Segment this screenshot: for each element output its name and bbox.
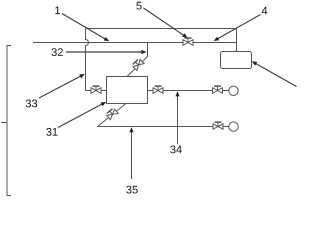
label 33 [26, 100, 37, 108]
label 4 [262, 7, 268, 15]
leader 4 arrow [216, 15, 260, 40]
circle pump bottom [229, 122, 238, 131]
wire right drop to box 4 [236, 29, 238, 52]
valve on top diagonal [132, 58, 144, 70]
valve on bottom pipe before pump [213, 122, 223, 129]
wire right pipe valve to pump [223, 90, 229, 92]
wire bottom diagonal from box 31 [98, 104, 127, 127]
wire bottom pipe valve to pump [223, 126, 229, 128]
bracket left [1, 46, 11, 196]
arrow 35 head [129, 127, 133, 132]
circle pump top [229, 86, 238, 95]
valve left of box 31 [91, 86, 101, 93]
label 1 [55, 7, 60, 15]
wire 35 vertical [131, 130, 133, 180]
label 31 [46, 128, 57, 136]
box component 31 (central) [107, 77, 148, 104]
valve on bottom diagonal [106, 108, 118, 120]
wire 34 vertical [177, 93, 179, 144]
label 34 [170, 146, 182, 154]
label 32 [52, 48, 63, 56]
wire left vertical with crossover hop [86, 29, 92, 91]
box component 4 [221, 52, 252, 69]
arrow 34 head [175, 91, 179, 96]
label 35 [126, 186, 137, 194]
leader 32 arrow [66, 51, 144, 53]
leader pointing at box 4 from bottom right [254, 63, 296, 87]
wire bottom pipe [98, 126, 214, 128]
wire top pipe [86, 28, 237, 30]
leader 5 arrow [144, 8, 186, 36]
valve on right pipe before pump [213, 86, 223, 93]
wire top diagonal from box 31 [127, 43, 148, 77]
wire middle pipe [33, 42, 237, 44]
wire right pipe from box 31 [148, 90, 213, 92]
valve right of box 31 [153, 86, 163, 93]
wire valve to box 31 [101, 90, 107, 92]
label 5 [136, 2, 141, 10]
valve 5 on middle pipe [183, 38, 193, 45]
leader 1 arrow [62, 14, 107, 40]
leader 31 arrow [58, 103, 104, 127]
leader 33 arrow [39, 75, 82, 98]
